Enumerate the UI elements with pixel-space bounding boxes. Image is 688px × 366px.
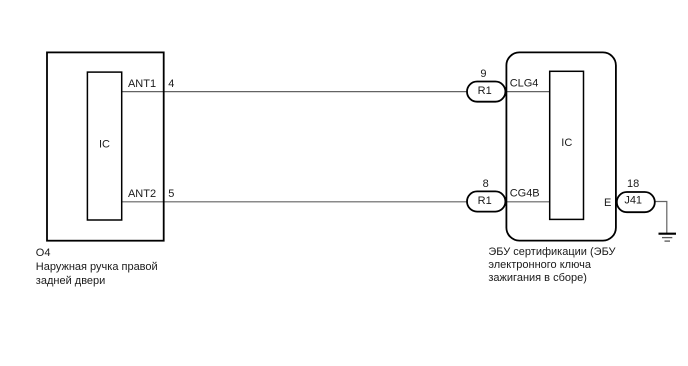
svg-text:R1: R1 — [478, 85, 492, 97]
svg-text:R1: R1 — [478, 195, 492, 207]
svg-text:IC: IC — [561, 137, 572, 149]
IC block inside O4 — [87, 72, 121, 220]
ECU rounded box — [506, 52, 616, 240]
IC block inside ECU — [550, 71, 584, 219]
wire CLG4 to IC — [505, 91, 550, 93]
svg-text:CG4B: CG4B — [510, 188, 540, 200]
connector oval R1 pin 8 — [467, 191, 505, 211]
svg-text:9: 9 — [480, 68, 486, 80]
svg-text:ANT2: ANT2 — [128, 188, 156, 200]
svg-text:ЭБУ сертификации (ЭБУ: ЭБУ сертификации (ЭБУ — [488, 246, 616, 258]
component O4 outer box — [47, 52, 164, 240]
wire CG4B to IC — [505, 201, 550, 203]
svg-text:18: 18 — [627, 178, 639, 190]
wire ANT2 to pin 8 — [122, 201, 468, 203]
svg-text:зажигания в сборе): зажигания в сборе) — [488, 272, 587, 284]
ground — [659, 234, 677, 241]
svg-text:задней двери: задней двери — [36, 275, 106, 287]
svg-text:J41: J41 — [624, 194, 642, 206]
wire J41 to ground — [655, 202, 667, 234]
svg-text:CLG4: CLG4 — [510, 78, 539, 90]
svg-text:IC: IC — [99, 138, 110, 150]
svg-text:4: 4 — [168, 78, 174, 90]
svg-text:E: E — [604, 197, 611, 209]
svg-text:электронного ключа: электронного ключа — [488, 259, 591, 271]
svg-text:O4: O4 — [36, 247, 51, 259]
connector oval R1 pin 9 — [467, 82, 505, 102]
svg-text:8: 8 — [483, 178, 489, 190]
svg-text:ANT1: ANT1 — [128, 78, 156, 90]
svg-text:Наружная ручка правой: Наружная ручка правой — [36, 261, 158, 273]
svg-text:5: 5 — [168, 188, 174, 200]
connector oval J41 — [617, 192, 655, 212]
wire ANT1 to pin 9 — [122, 91, 468, 93]
